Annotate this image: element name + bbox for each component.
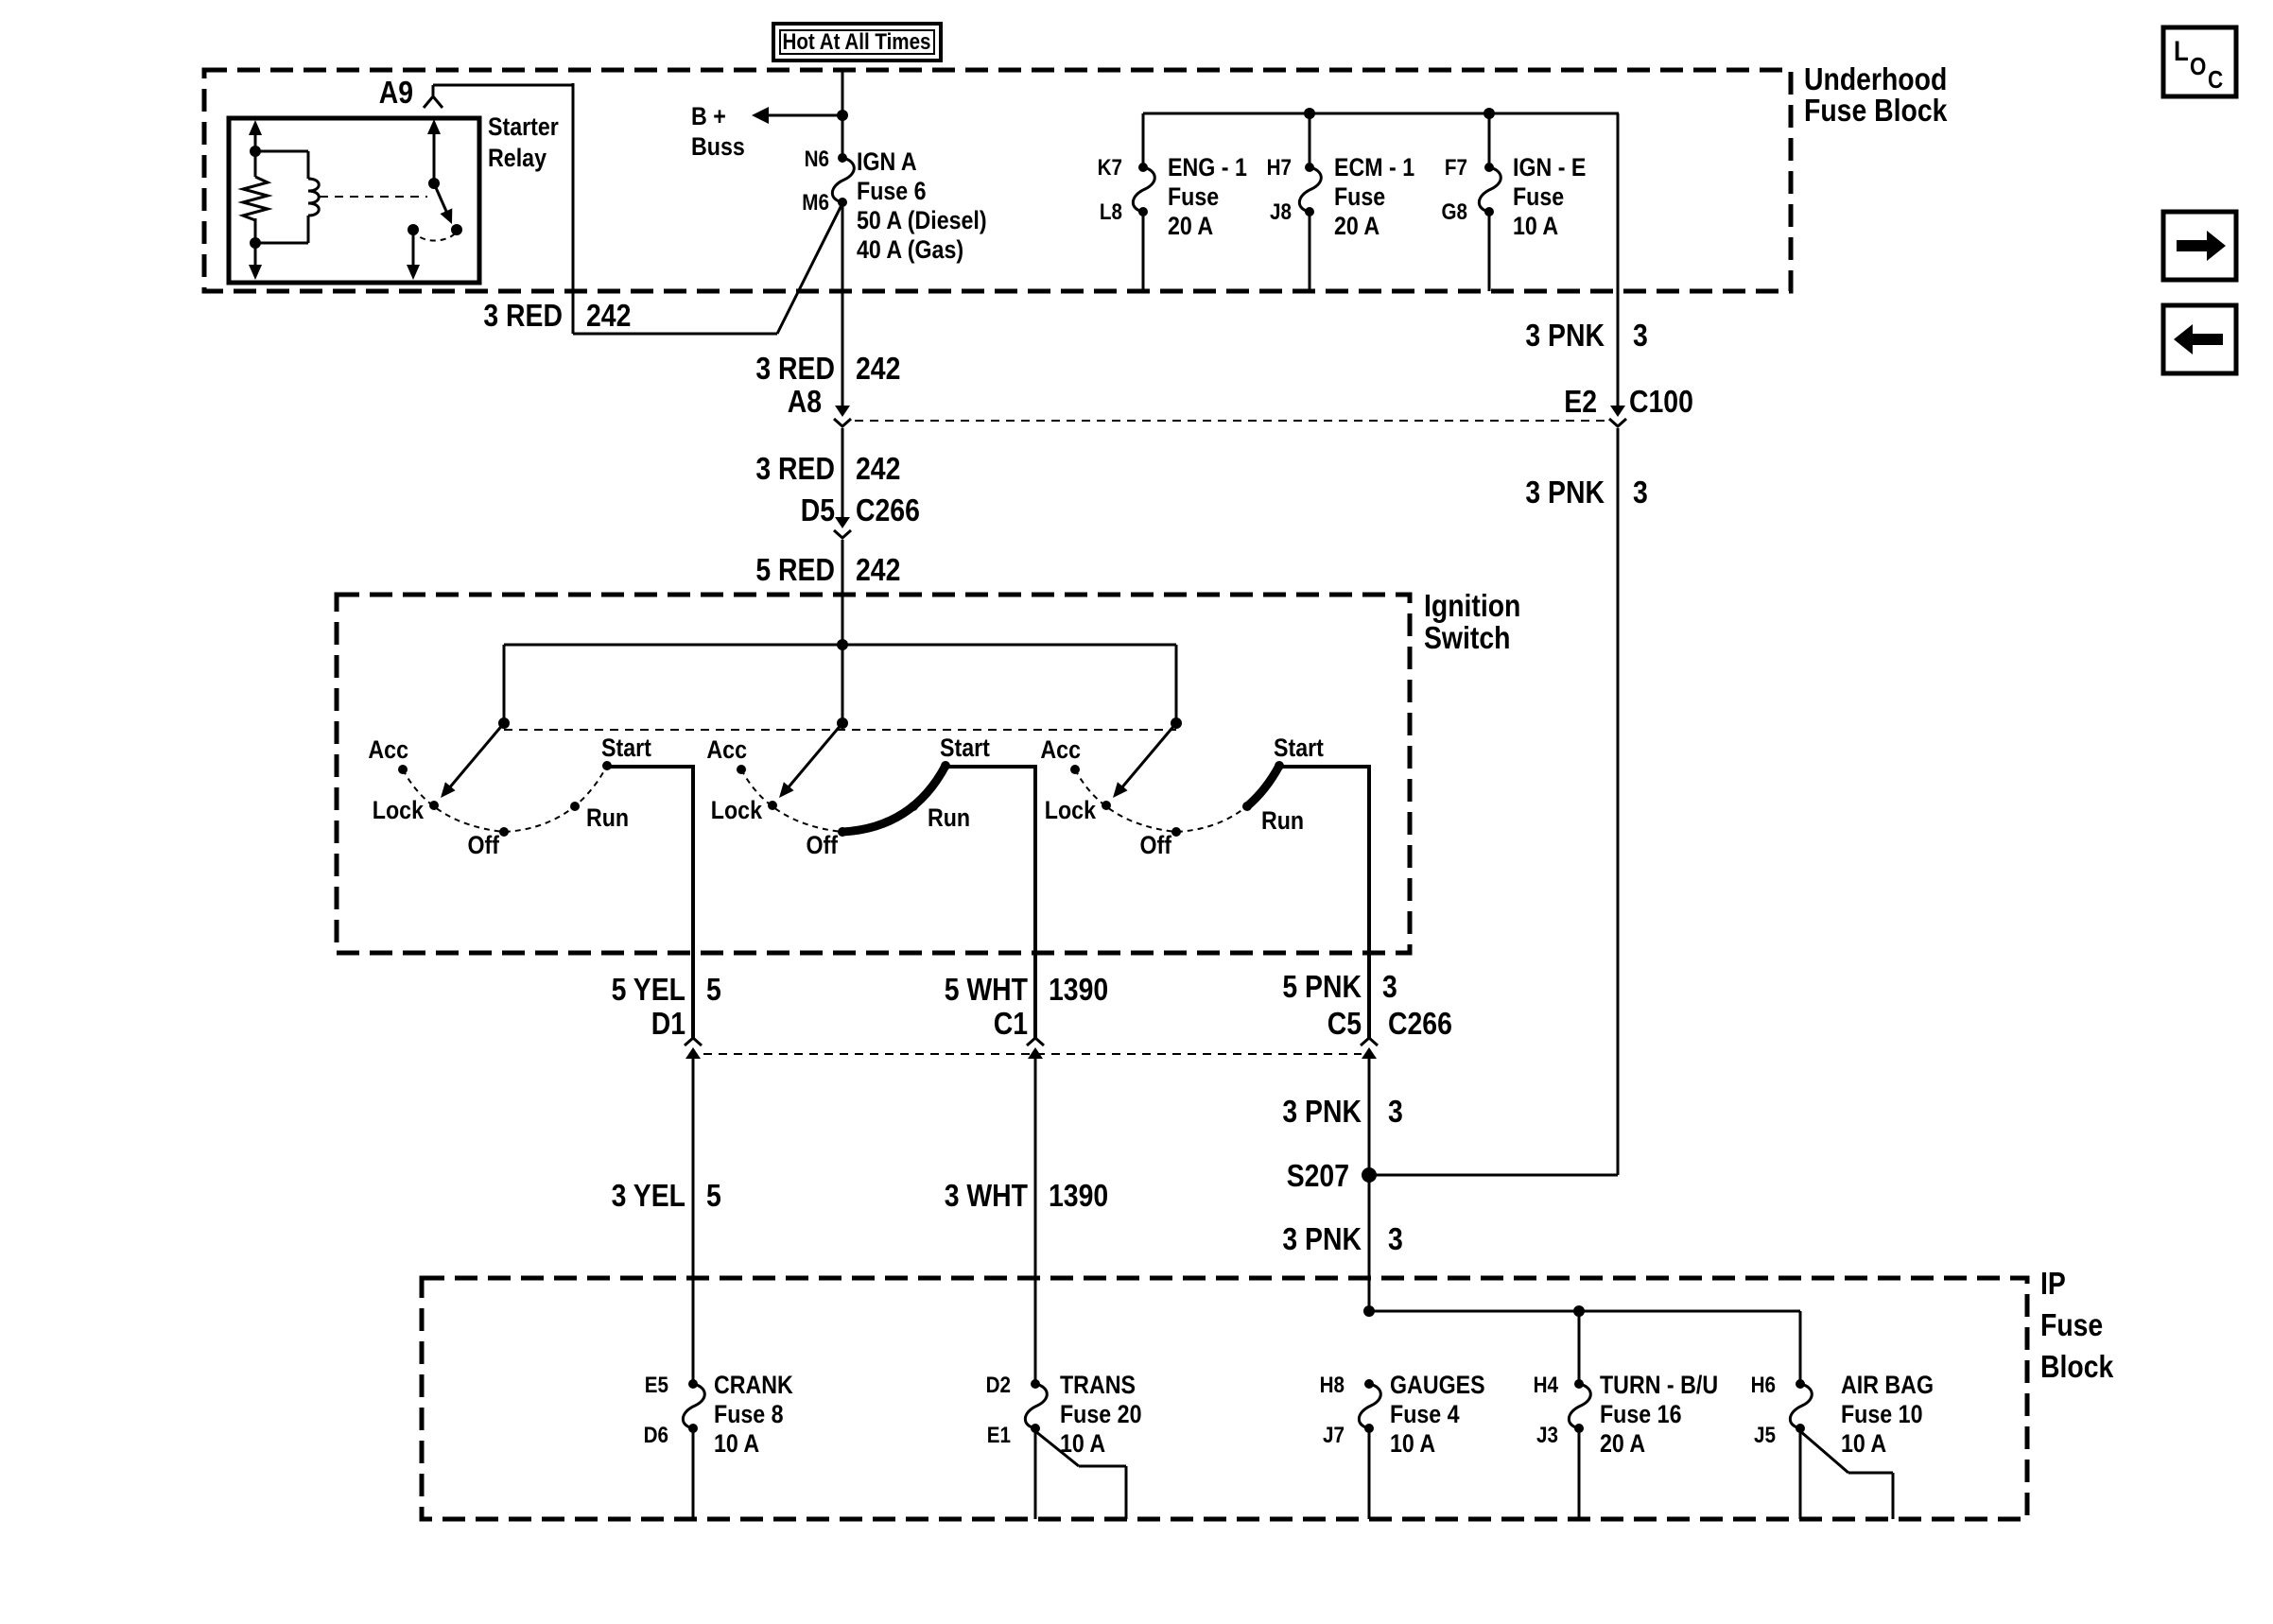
svg-text:Switch: Switch [1424, 620, 1511, 655]
ignition switch wafer 3 travel arc and contacts [1070, 761, 1284, 837]
svg-text:5 WHT: 5 WHT [945, 972, 1028, 1007]
pin label E5 [645, 1373, 668, 1398]
svg-text:M6: M6 [802, 190, 829, 216]
wire AIR BAG fuse output straight [1799, 1428, 1802, 1519]
label: CRANK Fuse 8 10 A [714, 1371, 793, 1458]
fuse IGN A (Fuse 6) N6-M6 [832, 153, 854, 207]
wire 3 PNK below C5 [1368, 1059, 1371, 1311]
connector C266 crossing (C1) [1027, 1038, 1044, 1059]
block title: Underhood Fuse Block [1804, 61, 1948, 128]
terminal A9 label [379, 75, 413, 110]
wire label: 5 PNK 3 [1282, 969, 1397, 1004]
wire ECM-1 fuse to block edge [1309, 212, 1311, 291]
wire splice S207 to 3 PNK feed [1369, 1174, 1618, 1177]
svg-text:TURN - B/U: TURN - B/U [1600, 1371, 1718, 1399]
wire label: 3 RED 242 (A9 feed) [483, 298, 631, 333]
power feed label box: Hot At All Times [773, 24, 941, 60]
pin label J3 [1536, 1423, 1558, 1448]
switch 2 arm arrow [779, 723, 842, 798]
svg-text:ECM - 1: ECM - 1 [1334, 153, 1414, 181]
svg-text:Ignition: Ignition [1424, 588, 1520, 623]
label: IGN A Fuse 6 ratings [857, 147, 987, 264]
labels switch 3 positions [1040, 734, 1324, 859]
pin label H4 [1534, 1373, 1559, 1398]
svg-text:D2: D2 [986, 1373, 1011, 1398]
wire to CRANK fuse inside block [692, 1278, 695, 1384]
fuse TURN-B/U (Fuse 16) H4-J3 [1569, 1379, 1590, 1433]
svg-text:3 PNK: 3 PNK [1525, 475, 1605, 510]
next page arrow icon [2163, 212, 2236, 280]
labels switch 2 positions [706, 734, 990, 859]
left branch bottom wire with down arrow [249, 237, 262, 280]
relay output wire with down arrow [407, 230, 420, 280]
wire 5 RED to ignition switch [842, 540, 844, 645]
svg-text:242: 242 [856, 351, 900, 386]
svg-text:ENG - 1: ENG - 1 [1168, 153, 1247, 181]
svg-text:1390: 1390 [1049, 1178, 1108, 1213]
svg-text:G8: G8 [1442, 199, 1468, 225]
svg-text:C266: C266 [1388, 1006, 1452, 1041]
wire to TURN-B/U fuse [1578, 1311, 1581, 1384]
svg-text:A9: A9 [379, 75, 413, 110]
svg-text:Fuse 10: Fuse 10 [1841, 1400, 1923, 1428]
connector C266 dashed interface line [703, 1053, 1362, 1055]
svg-text:Fuse Block: Fuse Block [1804, 93, 1948, 128]
svg-text:Off: Off [468, 831, 500, 859]
svg-text:10 A: 10 A [714, 1429, 759, 1458]
relay output contact dot [408, 224, 419, 235]
svg-text:Fuse 6: Fuse 6 [857, 177, 927, 205]
relay switch common wire with up arrow [427, 119, 441, 189]
svg-text:E2: E2 [1564, 384, 1597, 419]
svg-text:242: 242 [856, 451, 900, 486]
wire label: 5 RED 242 [755, 552, 900, 587]
svg-text:C266: C266 [856, 492, 920, 527]
pin label K7 [1098, 155, 1122, 181]
svg-text:Hot At All Times: Hot At All Times [783, 29, 931, 55]
svg-text:Lock: Lock [373, 796, 425, 824]
wire label: 3 RED 242 (row 3) [755, 451, 900, 486]
label: IGN-E Fuse 10 A [1513, 153, 1586, 240]
connector pin label A8 [788, 384, 822, 419]
page locator icon (LOC) [2163, 27, 2236, 96]
wire switch 3 Start to GAUGES (5 PNK) [1279, 767, 1371, 1038]
svg-text:3: 3 [1633, 318, 1648, 353]
connector C266 crossing (D5) [834, 517, 851, 538]
wire label: 3 RED 242 (row 2) [755, 351, 900, 386]
svg-text:Fuse: Fuse [2040, 1307, 2103, 1342]
relay contact dot (normally open) [451, 224, 462, 235]
fuse CRANK (Fuse 8) E5-D6 [683, 1379, 704, 1433]
svg-text:Fuse: Fuse [1168, 182, 1219, 211]
label: ECM-1 Fuse 20 A [1334, 153, 1414, 240]
connector C266 crossing (C5) [1361, 1038, 1378, 1059]
connector C266 pin C5 labels [1327, 1006, 1452, 1041]
starter relay coil supply wire (left branch top) with up arrow [249, 120, 262, 157]
pin label G8 [1442, 199, 1468, 225]
label: TURN-B/U Fuse 16 20 A [1600, 1371, 1718, 1458]
pin label M6 [802, 190, 829, 216]
pin label J5 [1754, 1423, 1776, 1448]
connector C100 crossing (A8) [834, 406, 851, 426]
pin label H6 [1751, 1373, 1776, 1398]
svg-text:A8: A8 [788, 384, 822, 419]
svg-text:Fuse 4: Fuse 4 [1390, 1400, 1460, 1428]
ignition switch wafer 1 travel arc and contacts [398, 761, 612, 837]
svg-text:Buss: Buss [691, 132, 745, 161]
svg-text:S207: S207 [1287, 1158, 1349, 1193]
svg-text:Acc: Acc [368, 735, 408, 764]
wire label: 3 PNK 3 (upper) [1525, 318, 1647, 353]
main battery feed wire from Hot At All Times [837, 70, 848, 158]
wire AIR BAG fuse output branch [1800, 1431, 1893, 1519]
connector C100 pin E2 labels [1564, 384, 1693, 419]
svg-text:Lock: Lock [1045, 796, 1097, 824]
wire 3 RED below A8 [842, 428, 844, 517]
switch pivot dashed gang link [504, 729, 1176, 731]
svg-text:Run: Run [1261, 806, 1304, 835]
connector C266 pin D5 labels [801, 492, 920, 527]
label: B+ Buss [691, 102, 745, 161]
splice S207 [1287, 1158, 1377, 1193]
IP Fuse Block dashed boundary box [422, 1278, 2027, 1519]
wire 3 YEL below D1 [692, 1059, 695, 1384]
wire label: 3 PNK 3 (below S207) [1282, 1221, 1402, 1256]
svg-text:L: L [2174, 36, 2189, 67]
pin label L8 [1100, 199, 1122, 225]
wire fuse bus down right side (3 PNK circuit) [1617, 113, 1620, 406]
svg-text:40 A (Gas): 40 A (Gas) [857, 235, 963, 264]
switch 3 closed contact thick arc (Run to Start) [1247, 766, 1279, 806]
svg-text:5: 5 [706, 972, 721, 1007]
svg-text:Lock: Lock [711, 796, 763, 824]
svg-text:J5: J5 [1754, 1423, 1776, 1448]
pin label F7 [1445, 155, 1467, 181]
svg-text:J8: J8 [1270, 199, 1292, 225]
label: GAUGES Fuse 4 10 A [1390, 1371, 1485, 1458]
svg-text:K7: K7 [1098, 155, 1122, 181]
svg-text:Fuse: Fuse [1513, 182, 1564, 211]
svg-text:3 PNK: 3 PNK [1282, 1094, 1362, 1129]
svg-text:3 PNK: 3 PNK [1282, 1221, 1362, 1256]
svg-text:H8: H8 [1320, 1373, 1345, 1398]
svg-text:J3: J3 [1536, 1423, 1558, 1448]
svg-text:10 A: 10 A [1390, 1429, 1435, 1458]
wire switch 1 Start to CRANK fuse (5 YEL) [607, 767, 695, 1038]
svg-text:Start: Start [940, 734, 990, 762]
fuse block internal bus wire [1143, 108, 1619, 119]
switch 3 arm arrow [1113, 723, 1176, 798]
svg-text:F7: F7 [1445, 155, 1467, 181]
svg-text:242: 242 [856, 552, 900, 587]
wire bus to IGN-E fuse [1488, 113, 1491, 167]
svg-text:L8: L8 [1100, 199, 1122, 225]
svg-text:O: O [2190, 52, 2206, 80]
svg-text:10 A: 10 A [1841, 1429, 1886, 1458]
svg-text:Run: Run [586, 803, 629, 832]
svg-text:5 YEL: 5 YEL [612, 972, 685, 1007]
svg-text:H6: H6 [1751, 1373, 1776, 1398]
wire switch 2 Start to TRANS fuse (5 WHT) [946, 767, 1037, 1038]
wire to TRANS fuse inside block [1034, 1278, 1037, 1384]
wire TRANS fuse output straight [1034, 1428, 1037, 1519]
svg-text:D1: D1 [651, 1006, 685, 1041]
relay actuation dashed link [320, 196, 427, 198]
svg-text:3 YEL: 3 YEL [612, 1178, 685, 1213]
svg-text:AIR BAG: AIR BAG [1841, 1371, 1934, 1399]
fuse ECM-1 (20 A) H7-J8 [1299, 163, 1321, 216]
svg-text:TRANS: TRANS [1060, 1371, 1136, 1399]
svg-text:H7: H7 [1267, 155, 1292, 181]
wire GAUGES fuse output [1368, 1428, 1371, 1519]
svg-text:3 PNK: 3 PNK [1525, 318, 1605, 353]
svg-text:GAUGES: GAUGES [1390, 1371, 1485, 1399]
fuse AIR BAG (Fuse 10) H6-J5 [1790, 1379, 1812, 1433]
svg-text:Fuse 16: Fuse 16 [1600, 1400, 1682, 1428]
wire label: 5 WHT 1390 [945, 972, 1109, 1007]
pin label J7 [1323, 1423, 1345, 1448]
block title: Ignition Switch [1424, 588, 1520, 655]
fuse GAUGES (Fuse 4) H8-J7 [1359, 1379, 1380, 1433]
svg-text:3: 3 [1388, 1221, 1403, 1256]
wire label: 3 PNK 3 (above S207) [1282, 1094, 1402, 1129]
relay switch arm (movable contact arrow) [434, 183, 452, 224]
block title: IP Fuse Block [2040, 1266, 2114, 1384]
svg-text:20 A: 20 A [1600, 1429, 1645, 1458]
svg-text:10 A: 10 A [1060, 1429, 1105, 1458]
svg-text:Acc: Acc [706, 735, 747, 764]
switch pivot dots [498, 717, 1182, 729]
switch 1 arm arrow [441, 723, 504, 798]
relay contact dashed arc [413, 230, 457, 241]
label: ENG-1 Fuse 20 A [1168, 153, 1247, 240]
wire 3 WHT below C1 [1034, 1059, 1037, 1384]
svg-text:Fuse: Fuse [1334, 182, 1385, 211]
wire from A9 to fuse block exterior [424, 83, 842, 334]
svg-text:Run: Run [928, 803, 970, 832]
wire ENG-1 fuse to block edge [1142, 212, 1145, 291]
pin label H8 [1320, 1373, 1345, 1398]
wire label: 3 YEL 5 [612, 1178, 721, 1213]
svg-text:Off: Off [807, 831, 839, 859]
svg-text:Fuse 8: Fuse 8 [714, 1400, 784, 1428]
svg-text:1390: 1390 [1049, 972, 1108, 1007]
svg-text:242: 242 [586, 298, 631, 333]
svg-text:Underhood: Underhood [1804, 61, 1947, 96]
svg-text:20 A: 20 A [1168, 212, 1213, 240]
pin label J8 [1270, 199, 1292, 225]
svg-text:D6: D6 [644, 1423, 668, 1448]
wire label: 3 PNK 3 (below C100) [1525, 475, 1647, 510]
wire 3 RED below fuse [842, 203, 844, 406]
svg-text:5: 5 [706, 1178, 721, 1213]
svg-text:3: 3 [1633, 475, 1648, 510]
starter relay outline box [229, 118, 479, 283]
previous page arrow icon [2163, 305, 2236, 373]
svg-text:Start: Start [601, 734, 651, 762]
ignition switch wafer 2 travel arc and contacts [737, 761, 950, 837]
svg-text:E5: E5 [645, 1373, 668, 1398]
svg-text:Acc: Acc [1040, 735, 1081, 764]
svg-text:3 WHT: 3 WHT [945, 1178, 1028, 1213]
labels switch 1 positions [368, 734, 651, 859]
connector pin label D1 [651, 1006, 685, 1041]
wire IGN-E fuse to block edge [1488, 212, 1491, 291]
svg-text:5 PNK: 5 PNK [1282, 969, 1362, 1004]
fuse TRANS (Fuse 20) D2-E1 [1025, 1379, 1047, 1433]
svg-text:B +: B + [691, 102, 726, 130]
wire bus to ECM-1 fuse [1309, 113, 1311, 167]
svg-text:C1: C1 [994, 1006, 1028, 1041]
svg-text:E1: E1 [987, 1423, 1011, 1448]
connector pin label C1 [994, 1006, 1028, 1041]
connector C100 crossing (E2) [1609, 406, 1626, 426]
svg-text:3: 3 [1382, 969, 1397, 1004]
svg-text:IP: IP [2040, 1266, 2066, 1301]
B+ Buss takeoff arrow [752, 107, 842, 124]
svg-text:Starter: Starter [488, 112, 559, 141]
svg-text:Block: Block [2040, 1349, 2114, 1384]
svg-text:3: 3 [1388, 1094, 1403, 1129]
label: TRANS Fuse 20 10 A [1060, 1371, 1142, 1458]
svg-text:3 RED: 3 RED [755, 451, 835, 486]
pin label H7 [1267, 155, 1292, 181]
Underhood Fuse Block dashed boundary box [204, 70, 1791, 291]
connector C100 dashed interface line [855, 420, 1605, 422]
svg-text:CRANK: CRANK [714, 1371, 793, 1399]
wire TRANS fuse output branch [1035, 1431, 1126, 1519]
svg-text:C: C [2208, 65, 2223, 94]
svg-text:3 RED: 3 RED [483, 298, 563, 333]
svg-text:50 A (Diesel): 50 A (Diesel) [857, 206, 987, 234]
fuse ENG-1 (20 A) K7-L8 [1133, 163, 1154, 216]
svg-text:IGN - E: IGN - E [1513, 153, 1586, 181]
resistor (relay suppression resistor) [243, 151, 268, 243]
ignition switch feed bus [504, 639, 1176, 723]
svg-text:5 RED: 5 RED [755, 552, 835, 587]
svg-text:Fuse 20: Fuse 20 [1060, 1400, 1142, 1428]
svg-text:N6: N6 [805, 147, 829, 172]
label: AIR BAG Fuse 10 10 A [1841, 1371, 1934, 1458]
svg-text:H4: H4 [1534, 1373, 1559, 1398]
svg-text:Off: Off [1140, 831, 1172, 859]
wire TURN-B/U fuse output [1578, 1428, 1581, 1519]
IP fuse block internal bus [1363, 1305, 1800, 1384]
svg-text:10 A: 10 A [1513, 212, 1558, 240]
svg-text:D5: D5 [801, 492, 835, 527]
svg-text:J7: J7 [1323, 1423, 1345, 1448]
wire CRANK fuse output [692, 1428, 695, 1519]
wire 3 PNK below C100 [1617, 428, 1620, 1175]
switch 2 closed contact thick arc (Off to Start) [842, 766, 946, 832]
svg-text:C5: C5 [1327, 1006, 1362, 1041]
pin label E1 [987, 1423, 1011, 1448]
svg-text:20 A: 20 A [1334, 212, 1379, 240]
svg-text:3 RED: 3 RED [755, 351, 835, 386]
pin label D6 [644, 1423, 668, 1448]
wire bus to ENG-1 fuse [1142, 113, 1145, 167]
svg-text:Relay: Relay [488, 144, 547, 172]
fuse IGN-E (10 A) F7-G8 [1479, 163, 1501, 216]
svg-text:Start: Start [1274, 734, 1324, 762]
svg-text:C100: C100 [1629, 384, 1693, 419]
label: Starter Relay [488, 112, 559, 172]
wire label: 5 YEL 5 [612, 972, 721, 1007]
svg-text:IGN A: IGN A [857, 147, 917, 176]
pin label D2 [986, 1373, 1011, 1398]
pin label N6 [805, 147, 829, 172]
relay coil (inductor) [255, 151, 319, 243]
connector C266 crossing (D1) [685, 1038, 702, 1059]
Ignition Switch dashed boundary box [337, 595, 1410, 953]
wire label: 3 WHT 1390 [945, 1178, 1109, 1213]
